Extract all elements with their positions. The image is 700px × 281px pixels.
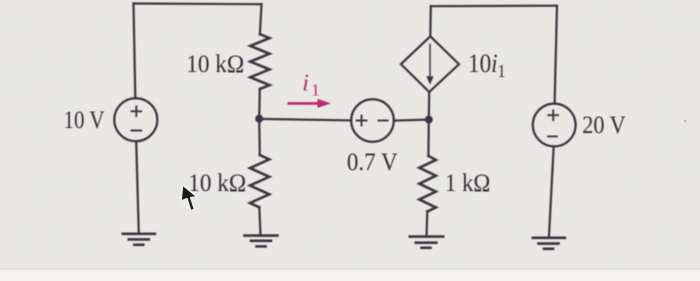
arrow inside diamond (downward) — [426, 45, 433, 85]
wire R3 bottom to ground — [425, 212, 428, 237]
svg-text:10 kΩ: 10 kΩ — [188, 170, 246, 197]
ground (right, under V3) — [533, 238, 565, 249]
svg-text:1: 1 — [311, 80, 320, 99]
mouse cursor — [181, 185, 197, 211]
svg-text:10 kΩ: 10 kΩ — [186, 51, 244, 78]
voltage source V2 0.7 V (horizontal) — [351, 99, 394, 142]
bottom lighter strip — [0, 270, 700, 281]
wire node B down to R3 — [427, 120, 430, 156]
wire V3 bottom to right ground — [549, 146, 554, 237]
node B junction dot — [425, 116, 433, 124]
wire V1 bottom to left ground — [136, 141, 139, 233]
resistor R3 1 kOhm — [419, 156, 436, 212]
wire left vertical (top corner to V1 top) — [134, 4, 136, 99]
wire R2 bottom to ground — [259, 207, 260, 235]
wire node A to R2 — [258, 119, 261, 155]
svg-text:20 V: 20 V — [582, 112, 626, 139]
current arrow i1 (magenta) — [287, 70, 331, 108]
wire diamond top to top wire — [429, 6, 432, 36]
wire node B up to dependent source — [428, 92, 431, 120]
svg-text:1 kΩ: 1 kΩ — [445, 170, 491, 197]
voltage source V3 20 V — [533, 104, 576, 147]
wire R1 bottom to node A — [258, 89, 261, 119]
ground (under R3) — [410, 237, 443, 248]
resistor R1 10 kOhm (top) — [250, 34, 269, 89]
wire top-left horizontal — [134, 2, 262, 5]
wire VS2 right to node B — [394, 120, 429, 121]
ground (left, under V1) — [123, 234, 155, 245]
svg-text:i: i — [302, 70, 309, 96]
faint speck — [684, 120, 687, 123]
resistor R2 10 kOhm (bottom) — [250, 155, 269, 207]
wire right vertical to V3 top — [555, 6, 557, 104]
svg-text:0.7 V: 0.7 V — [347, 149, 398, 176]
wire top corner down to R1 — [260, 4, 262, 34]
node A junction dot — [255, 115, 263, 123]
wire node A to VS2 left — [259, 119, 351, 121]
dependent current source U1 10i1 (diamond) — [401, 36, 459, 92]
wire top-right horizontal — [431, 5, 557, 8]
svg-text:10 V: 10 V — [64, 107, 105, 134]
ground (under R2) — [245, 236, 278, 247]
voltage source V1 10 V — [114, 98, 157, 141]
